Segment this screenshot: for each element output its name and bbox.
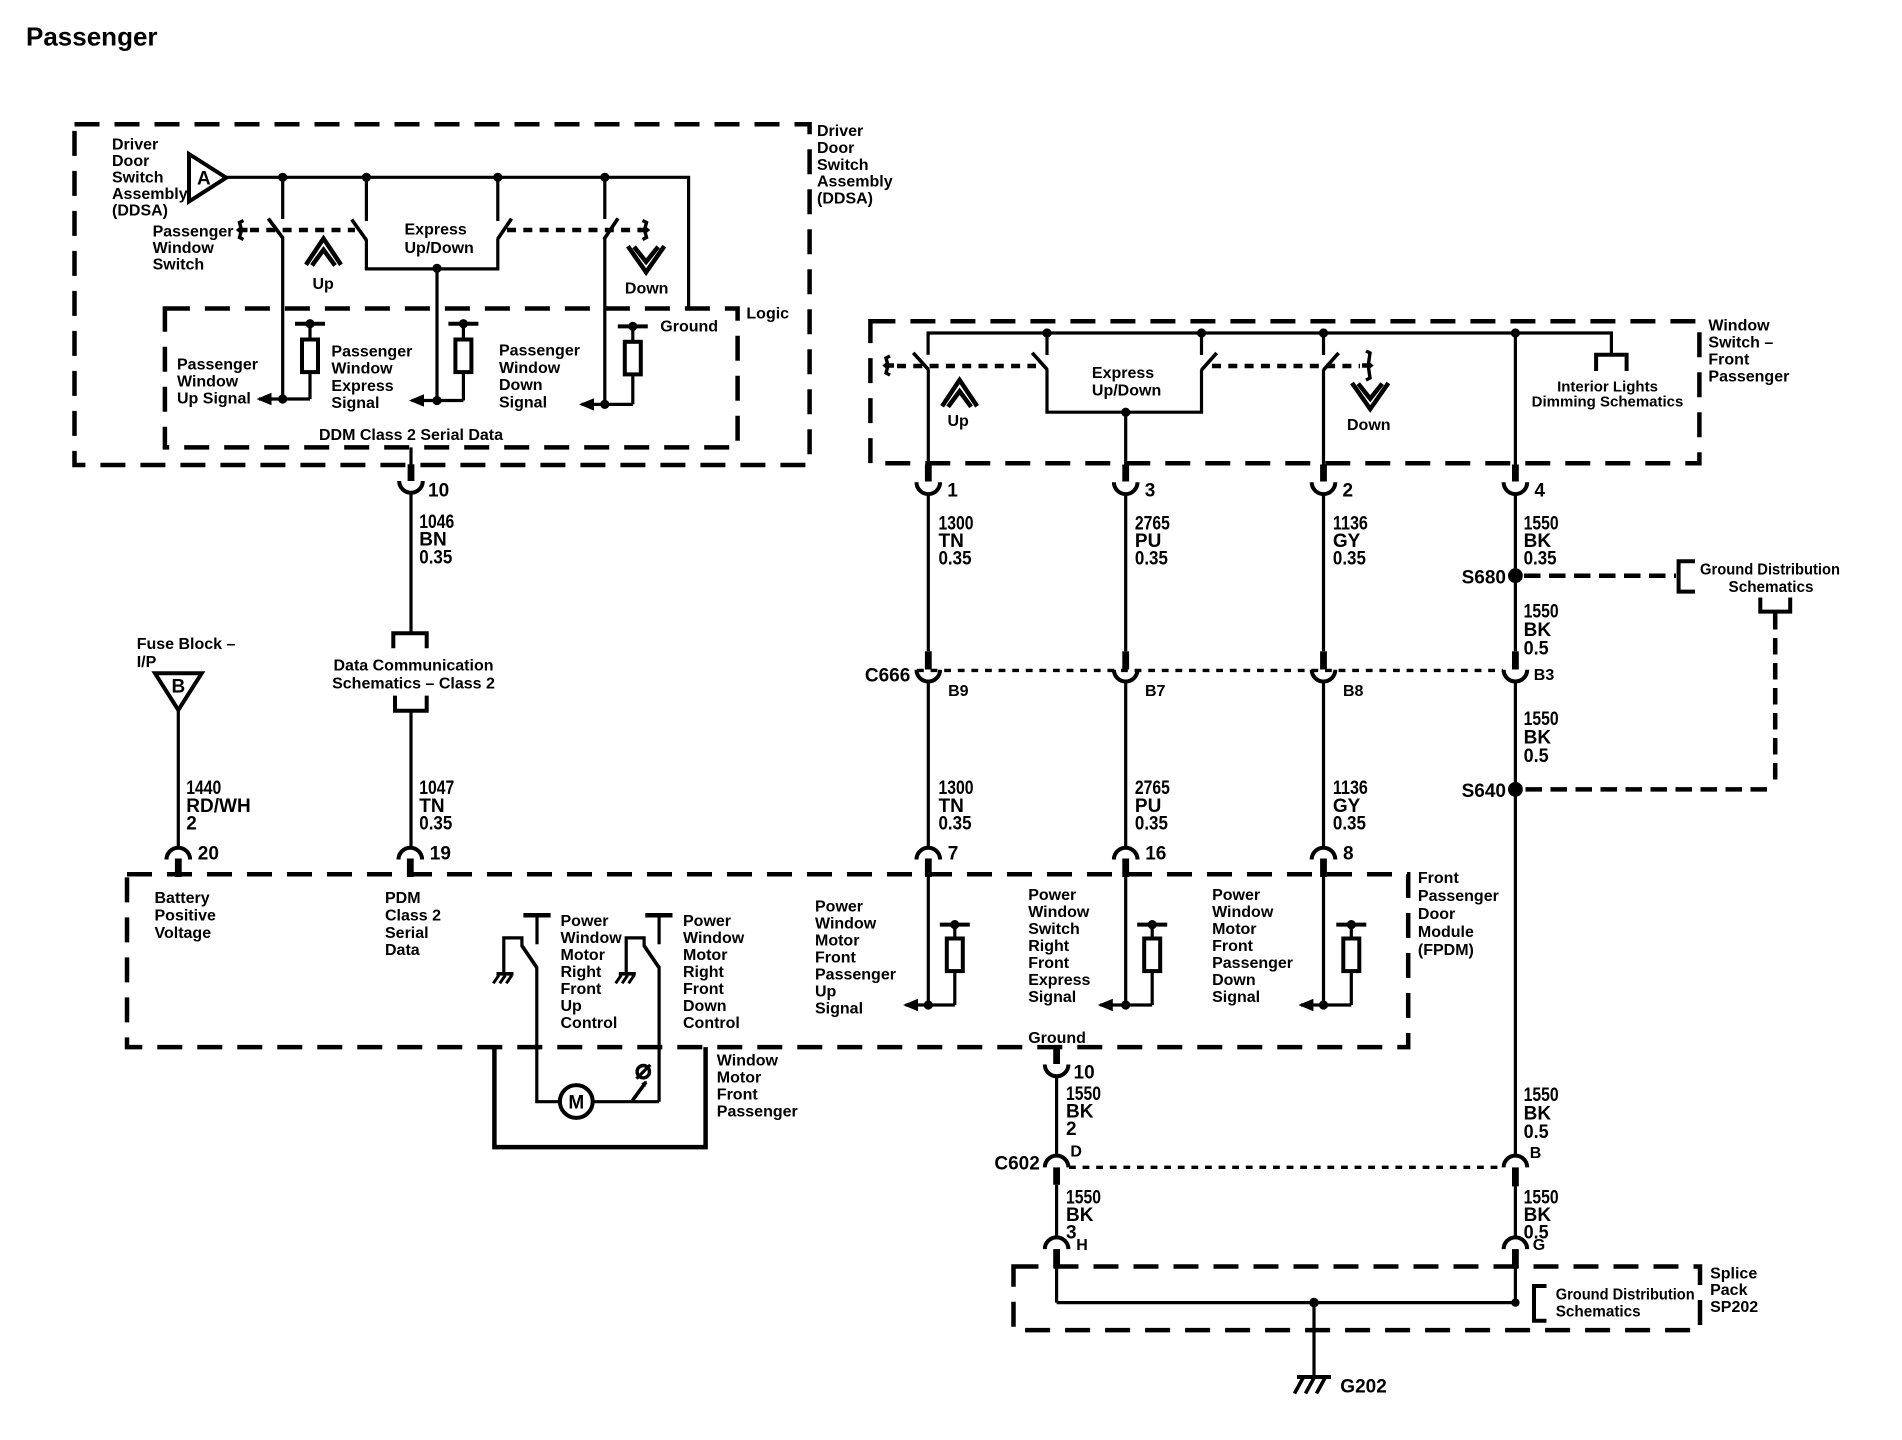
svg-text:H: H [1076,1237,1088,1254]
splice S680 [1462,568,1523,589]
wire: DDSA bus [226,177,688,308]
wire: DDM serial data out [409,447,412,464]
reference: Ground Distribution Schematics (splice) [1534,1286,1695,1321]
svg-text:Window: Window [1212,904,1274,921]
label: 2765 PU 0.35 [1135,513,1170,569]
svg-text:Door: Door [1418,906,1455,923]
wire: window switch bus [928,333,1611,355]
svg-text:(DDSA): (DDSA) [817,190,873,207]
svg-text:Switch: Switch [817,157,869,174]
junction: bus dots [278,173,609,182]
svg-text:S640: S640 [1462,781,1506,802]
svg-text:Window: Window [499,360,561,377]
svg-text:Passenger: Passenger [26,21,158,51]
svg-text:Right: Right [683,964,725,981]
svg-text:Voltage: Voltage [155,925,212,942]
label: Passenger Window Switch [153,223,234,273]
svg-text:Up: Up [948,413,970,430]
connector: FPDM ground pin 10 [1045,1047,1095,1084]
svg-text:S680: S680 [1462,568,1506,589]
dashed reference drop to S640 [1524,613,1775,789]
connector: C602 D [1045,1156,1069,1185]
connector: pin 4 (window switch) [1504,465,1546,502]
connector: pin 2 (window switch) [1312,465,1353,502]
svg-text:0.35: 0.35 [1135,814,1168,835]
svg-text:B8: B8 [1343,683,1364,700]
label: 1550 BK 3 [1066,1187,1101,1243]
reference: Data Communication Schematics - Class 2 [332,633,495,711]
svg-text:0.35: 0.35 [1333,549,1366,570]
svg-text:Up Signal: Up Signal [177,391,251,408]
svg-text:3: 3 [1066,1222,1077,1243]
svg-text:0.35: 0.35 [1333,814,1366,835]
label: 1440 RD/WH 2 [186,778,250,835]
svg-text:8: 8 [1343,843,1354,864]
resistor: window switch express signal [1137,920,1167,1005]
junction: express center (DDSA) [432,264,441,273]
resistor: passenger window express signal pull-up [448,319,478,400]
svg-text:Passenger: Passenger [717,1104,798,1121]
svg-text:Ground Distribution: Ground Distribution [1556,1287,1695,1304]
connector: C666 B8 [1312,651,1364,700]
svg-text:G: G [1533,1237,1545,1254]
svg-text:Serial: Serial [385,925,429,942]
wire: express drop (window switch) [1124,412,1127,464]
svg-text:B7: B7 [1145,683,1166,700]
connector line C602 [1069,1166,1503,1169]
svg-text:Passenger: Passenger [815,967,896,984]
svg-text:Schematics – Class 2: Schematics – Class 2 [332,676,495,693]
switch: up (window switch) [913,353,928,465]
wire: down signal arrow [579,398,633,410]
symbol: down chevron (DDSA) [628,246,664,272]
svg-text:Motor: Motor [717,1070,761,1087]
svg-text:Signal: Signal [1028,989,1076,1006]
svg-text:A: A [197,169,211,190]
svg-text:Signal: Signal [499,394,547,411]
box: Splice Pack SP202 [1014,1267,1701,1331]
svg-text:Passenger: Passenger [1708,369,1789,386]
connector: C666 B9 [917,651,969,700]
svg-text:7: 7 [948,843,959,864]
switch: express right (DDSA) [498,177,512,269]
ground: down control [616,974,636,984]
reference: Ground Distribution Schematics (right) [1679,561,1840,611]
svg-text:0.35: 0.35 [1524,549,1557,570]
symbol: up chevron (window switch) [942,380,977,407]
svg-text:Window: Window [561,930,623,947]
svg-text:20: 20 [198,843,219,864]
wire 1300 TN 0.35 (upper) [927,494,930,651]
connector: splice pack H [1045,1237,1069,1268]
svg-text:3: 3 [1145,481,1156,502]
label: Window Switch - Front Passenger [1708,317,1789,385]
junction: bus dots (window switch) [1042,328,1520,337]
label: 1550 BK 0.5 (S640-B) [1524,1085,1559,1143]
label: 1550 BK 0.5 (B3-S640) [1524,709,1559,767]
switch: motor thermal contact [632,1065,650,1101]
wire: splice to G202 [1312,1303,1315,1377]
svg-text:Class 2: Class 2 [385,907,441,924]
svg-text:M: M [568,1092,584,1113]
label: 1047 TN 0.35 [419,778,454,835]
svg-text:SP202: SP202 [1710,1299,1758,1316]
svg-text:C602: C602 [994,1154,1039,1175]
label: 1550 BK 2 [1066,1084,1101,1140]
svg-text:Switch –: Switch – [1708,334,1773,351]
svg-text:Splice: Splice [1710,1265,1757,1282]
wire: up signal arrow (FPDM) [903,875,955,1011]
mechanical link dashed line (DDSA) [239,221,648,240]
svg-text:2: 2 [186,814,197,835]
label: Window Motor Front Passenger [717,1053,798,1121]
svg-text:Module: Module [1418,924,1474,941]
label: Passenger Window Express Signal [331,344,412,412]
svg-text:Motor: Motor [1212,921,1256,938]
label: Express Up/Down (DDSA) [405,221,474,256]
svg-text:(FPDM): (FPDM) [1418,942,1474,959]
connector: FPDM pin 7 [917,843,959,877]
svg-text:Power: Power [561,913,609,930]
wire 2765 PU 0.35 (lower) [1124,682,1127,848]
switch: passenger window down (DDSA) [604,177,618,404]
label: PDM Class 2 Serial Data [385,890,441,959]
svg-text:Driver: Driver [112,137,158,154]
wire 2765 PU 0.35 (upper) [1124,494,1127,651]
label: 2765 PU 0.35 lower [1135,778,1170,835]
relay: power window motor right front up control [504,915,560,1101]
svg-text:Schematics: Schematics [1729,579,1814,596]
svg-text:G202: G202 [1340,1377,1386,1398]
svg-text:DDM Class 2 Serial Data: DDM Class 2 Serial Data [319,427,503,444]
label: Power Window Motor Right Front Down Control [683,913,745,1032]
label: 1550 BK 0.5 (B-G) [1524,1188,1559,1244]
label: Power Window Motor Front Passenger Down Signal [1212,887,1293,1006]
svg-text:0.5: 0.5 [1524,639,1549,660]
label: Fuse Block - I/P [137,636,236,671]
label: 1136 GY 0.35 lower [1333,778,1368,835]
label: Power Window Motor Right Front Up Control [561,913,623,1032]
svg-text:Assembly: Assembly [112,186,188,203]
svg-text:B: B [172,677,186,698]
wire: down signal arrow (FPDM) [1298,875,1351,1011]
connector: FPDM pin 20 [167,843,219,877]
label: Passenger Window Down Signal [499,343,580,412]
connector: pin 3 (window switch) [1114,465,1155,502]
svg-text:B: B [1530,1145,1542,1162]
svg-text:Front: Front [1028,955,1070,972]
switch: down (window switch) [1324,333,1339,465]
svg-text:B9: B9 [948,683,969,700]
wire 1550 BK 3 [1055,1185,1058,1238]
wire 1550 BK 0.5 (B-G) [1514,1186,1517,1237]
label: 1046 BN 0.35 [419,512,454,569]
svg-text:Ground Distribution: Ground Distribution [1700,562,1840,579]
resistor: window motor up signal [940,920,970,1005]
svg-text:Power: Power [1028,887,1076,904]
connector: C666 B3 [1504,651,1555,684]
switch: express right (window switch) [1202,333,1217,412]
terminal B triangle (fuse block) [155,673,202,710]
svg-text:Up/Down: Up/Down [1092,383,1161,400]
wire: up signal arrow [257,393,311,405]
svg-text:Door: Door [817,140,854,157]
svg-text:Down: Down [499,377,543,394]
svg-text:Fuse Block –: Fuse Block – [137,636,236,653]
svg-text:Schematics: Schematics [1556,1304,1641,1321]
svg-text:Front: Front [561,981,603,998]
wire 1550 BK 2 [1055,1076,1058,1156]
connector: FPDM pin 8 [1312,843,1354,877]
label: DDSA right [817,123,893,207]
svg-text:16: 16 [1145,843,1166,864]
svg-text:Window: Window [717,1053,779,1070]
connector: splice pack G [1504,1237,1528,1268]
svg-text:Switch: Switch [153,257,205,274]
svg-text:Express: Express [331,378,393,395]
resistor: passenger window up signal pull-up [295,319,325,399]
junction: express center (window switch) [1121,408,1130,417]
label: Power Window Switch Right Front Express Signal [1028,887,1090,1006]
svg-text:0.35: 0.35 [939,814,972,835]
box: Driver Door Switch Assembly (DDSA) [75,124,810,465]
svg-text:Ground: Ground [1028,1030,1086,1047]
svg-text:1: 1 [947,481,958,502]
box: Logic [165,309,738,448]
svg-text:Window: Window [153,240,215,257]
box: Window Switch Front Passenger [870,321,1699,463]
box: window motor front passenger [494,1047,705,1147]
svg-text:Power: Power [815,899,863,916]
svg-text:10: 10 [1074,1062,1095,1083]
label: 1300 TN 0.35 lower [939,778,974,835]
wire 1046 BN 0.35 [409,493,412,634]
svg-text:Up/Down: Up/Down [405,240,474,257]
svg-text:Battery: Battery [155,890,210,907]
svg-text:Control: Control [683,1015,740,1032]
svg-text:Down: Down [683,998,727,1015]
svg-text:Window: Window [331,361,393,378]
connector: FPDM pin 19 [399,843,451,877]
label: 1550 BK 0.5 (S680-B3) [1524,602,1559,660]
ground G202 [1295,1377,1387,1398]
svg-text:Passenger: Passenger [177,356,258,373]
svg-text:Front: Front [717,1087,759,1104]
svg-text:B3: B3 [1534,667,1555,684]
svg-text:Assembly: Assembly [817,174,893,191]
svg-text:Window: Window [815,916,877,933]
svg-text:Window: Window [683,930,745,947]
wire: H into splice pack [1055,1268,1058,1303]
svg-text:0.5: 0.5 [1524,746,1549,767]
svg-text:0.35: 0.35 [1135,549,1168,570]
ground: up control [493,974,513,984]
svg-text:I/P: I/P [137,654,157,671]
wire 1550 BK 0.35 [1514,494,1517,651]
reference: Interior Lights Dimming Schematics [1532,355,1684,411]
svg-text:Motor: Motor [683,947,727,964]
terminal A triangle [189,154,226,202]
svg-text:PDM: PDM [385,890,421,907]
svg-text:Passenger: Passenger [499,343,580,360]
svg-text:Motor: Motor [561,947,605,964]
dashed reference line from S680 [1524,573,1676,578]
svg-text:Dimming Schematics: Dimming Schematics [1532,394,1684,411]
label: Express Up/Down (window switch) [1092,365,1161,400]
svg-text:Right: Right [561,964,603,981]
svg-text:Front: Front [683,981,725,998]
wire 1136 GY 0.35 (lower) [1322,682,1325,848]
svg-text:0.5: 0.5 [1524,1122,1549,1143]
svg-text:Express: Express [405,221,467,238]
svg-text:Passenger: Passenger [153,223,234,240]
svg-text:Window: Window [177,374,239,391]
svg-text:2: 2 [1343,481,1354,502]
mechanical link dashed line (window switch) [885,351,1371,380]
switch: express left (DDSA) [352,177,367,269]
svg-text:Front: Front [1212,938,1254,955]
wire: motor to contact [593,1100,659,1103]
wire: G into splice pack [1514,1268,1517,1303]
label: 1300 TN 0.35 [939,513,974,569]
svg-text:(DDSA): (DDSA) [112,203,168,220]
label: DDSA inside [112,137,188,220]
svg-text:C666: C666 [865,666,910,687]
svg-text:Down: Down [1212,972,1256,989]
switch: passenger window up (DDSA) [268,177,283,399]
svg-text:19: 19 [430,843,451,864]
svg-text:Down: Down [625,281,669,298]
svg-text:Signal: Signal [815,1001,863,1018]
switch: express left (window switch) [1032,333,1047,412]
motor M [560,1085,593,1118]
svg-text:Data: Data [385,942,420,959]
svg-text:Positive: Positive [155,907,216,924]
wire 1550 BK 0.5 (S640 run) [1514,682,1517,1156]
svg-text:2: 2 [1066,1119,1077,1140]
svg-text:Down: Down [1347,417,1391,434]
svg-text:4: 4 [1534,481,1545,502]
label: Front Passenger Door Module (FPDM) [1418,870,1499,959]
svg-text:Front: Front [1708,352,1750,369]
wire: express signal arrow [409,394,463,406]
svg-text:Signal: Signal [1212,989,1260,1006]
svg-text:Driver: Driver [817,123,863,140]
svg-text:Pack: Pack [1710,1282,1747,1299]
wire: splice bus [1057,1301,1516,1304]
svg-text:Logic: Logic [746,305,789,322]
svg-text:Front: Front [815,950,857,967]
relay: power window motor right front down control [626,915,672,1101]
svg-text:Right: Right [1028,938,1070,955]
svg-text:0.35: 0.35 [419,547,452,568]
symbol: down chevron (window switch) [1352,383,1388,409]
connector line C666 [865,666,1503,687]
svg-text:Data Communication: Data Communication [333,657,493,674]
connector: C666 B7 [1114,651,1166,700]
resistor: window motor down signal [1336,920,1366,1005]
label: Passenger Window Up Signal [177,356,258,407]
svg-text:D: D [1070,1144,1082,1161]
box: Front Passenger Door Module (FPDM) [127,874,1408,1047]
junction: splice bus dots [1309,1298,1519,1308]
svg-text:0.35: 0.35 [419,814,452,835]
connector: pin 1 (window switch) [917,465,959,502]
wire 1047 TN 0.35 [409,711,412,848]
label: Splice Pack SP202 [1710,1265,1758,1316]
wire: express box bottom (DDSA) [365,267,500,270]
label: 1136 GY 0.35 [1333,513,1368,569]
wire 1440 RD/WH 2 [177,710,180,848]
svg-text:10: 10 [428,480,449,501]
label: 1550 BK 0.35 [1524,513,1559,569]
svg-text:Switch: Switch [112,170,164,187]
wire 1136 GY 0.35 (upper) [1322,494,1325,651]
svg-text:Express: Express [1028,972,1090,989]
wire: express signal arrow (FPDM) [1098,875,1152,1011]
connector: C602 B [1504,1156,1528,1187]
wire: express box bottom (window switch) [1045,411,1203,414]
svg-text:Switch: Switch [1028,921,1080,938]
splice S640 [1462,781,1523,802]
svg-text:Control: Control [561,1015,618,1032]
svg-text:Passenger: Passenger [1212,955,1293,972]
connector: pin 10 (DDSA) [399,464,449,501]
svg-text:Window: Window [1028,904,1090,921]
wire 1300 TN 0.35 (lower) [927,682,930,848]
svg-text:Window: Window [1708,317,1770,334]
symbol: up chevron (DDSA) [306,239,341,266]
svg-text:Power: Power [683,913,731,930]
label: Power Window Motor Front Passenger Up Signal [815,899,896,1018]
wire: express signal drop (DDSA) [435,268,438,400]
svg-text:Signal: Signal [331,395,379,412]
connector: FPDM pin 16 [1114,843,1166,877]
svg-text:Power: Power [1212,887,1260,904]
wire: dimming feed [1514,333,1517,465]
svg-text:0.35: 0.35 [939,549,972,570]
svg-text:Up: Up [313,276,335,293]
svg-text:Up: Up [561,998,583,1015]
svg-text:Motor: Motor [815,933,859,950]
svg-text:Up: Up [815,984,837,1001]
resistor: passenger window down signal pull-up [618,322,648,405]
svg-text:Front: Front [1418,870,1460,887]
svg-text:Express: Express [1092,365,1154,382]
svg-text:Door: Door [112,153,149,170]
svg-text:Passenger: Passenger [1418,888,1499,905]
svg-text:Passenger: Passenger [331,344,412,361]
label: Battery Positive Voltage [155,890,216,942]
svg-text:Ground: Ground [660,318,718,335]
